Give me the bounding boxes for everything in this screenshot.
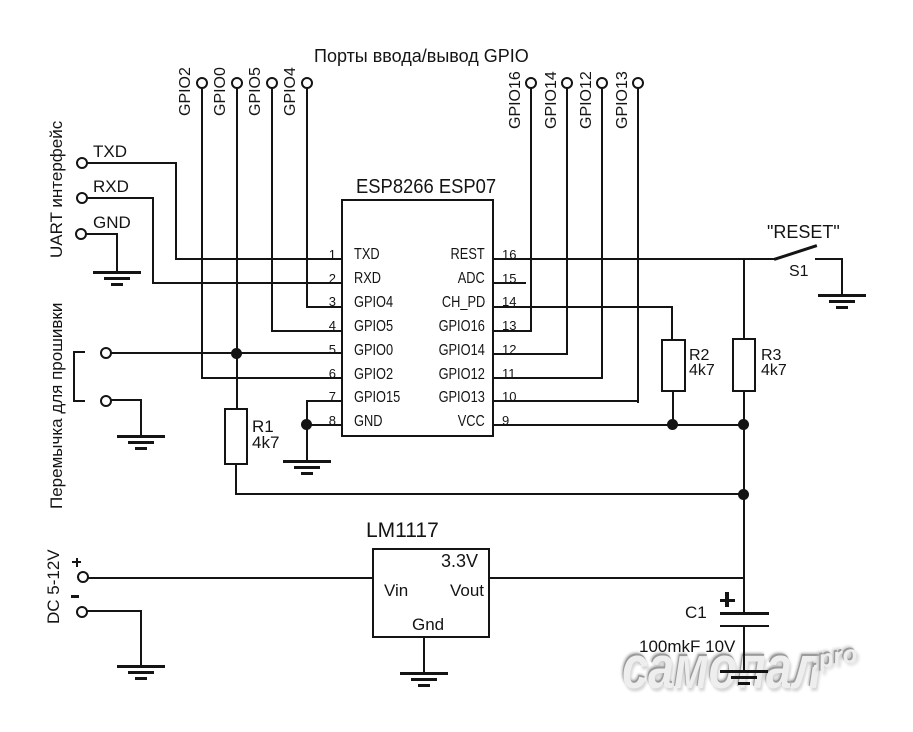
wire pin2: [152, 282, 342, 284]
wire DC minus vertical: [140, 610, 142, 666]
wire GND vertical: [116, 233, 118, 272]
pin number 7: [329, 390, 336, 403]
label RESET: [767, 223, 840, 241]
wire pin7 down: [306, 400, 308, 426]
pin number 2: [329, 272, 336, 285]
terminal GPIO4: [301, 77, 313, 89]
title Порты ввода/вывод GPIO: [314, 47, 529, 65]
pin label GPIO13: [439, 390, 485, 406]
junction R2/VCC: [667, 419, 678, 430]
wire pin11: [493, 377, 603, 379]
pin number 8: [329, 414, 336, 427]
label GPIO0: [213, 67, 229, 116]
label 100mkF 10V: [639, 638, 735, 655]
pin number 5: [329, 343, 336, 356]
terminal GPIO13: [632, 77, 644, 89]
terminal GPIO0: [231, 77, 243, 89]
watermark самопал: [622, 638, 822, 698]
wire RXD vertical: [152, 197, 154, 284]
wire pin8 ground stem: [306, 424, 308, 461]
wire R1 bottom: [235, 465, 237, 495]
wire pin6: [201, 377, 342, 379]
wire R3 top: [743, 258, 745, 338]
pin label GPIO0: [354, 343, 393, 359]
wire pin10: [493, 400, 639, 402]
jumper bracket bottom stub: [73, 400, 85, 402]
label R2 4k7: [689, 348, 715, 378]
regulator LM1117: [372, 548, 490, 638]
pin number 14: [502, 295, 516, 308]
terminal GPIO12: [596, 77, 608, 89]
wire pin4: [271, 330, 342, 332]
wire DC minus horizontal: [87, 610, 142, 612]
label GPIO16: [508, 71, 524, 129]
label LM1117: [366, 520, 439, 541]
jumper bracket vertical: [73, 351, 75, 402]
capacitor C1 plate bottom: [720, 625, 769, 628]
label ESP8266 ESP07: [356, 177, 496, 197]
junction pin7/pin8: [301, 419, 312, 430]
terminal TXD: [76, 157, 88, 169]
label DC 5-12V: [45, 549, 62, 624]
minus sign DC: [71, 595, 79, 598]
label GPIO13: [615, 71, 631, 129]
wire Vout: [490, 577, 745, 579]
label R1 4k7: [252, 419, 279, 451]
label GPIO5: [248, 67, 264, 116]
junction GPIO0/pin5: [231, 348, 242, 359]
pin number 12: [502, 343, 516, 356]
pin number 9: [502, 414, 509, 427]
ground LM1117: [399, 671, 401, 673]
wire R3 bottom stub: [743, 392, 745, 425]
pin label RXD: [354, 271, 381, 287]
plus sign DC: [72, 561, 81, 563]
IC U1 ESP8266 ESP07: [341, 199, 494, 437]
label GND: [93, 214, 131, 231]
wire GPIO5 vertical: [271, 87, 273, 332]
wire R2 bottom stub: [672, 392, 674, 425]
label C1: [685, 604, 707, 621]
ground jumper: [116, 434, 118, 436]
wire GND horizontal: [86, 233, 118, 235]
terminal DC minus: [76, 606, 88, 618]
wire GPIO16 vertical: [530, 87, 532, 332]
terminal GND: [75, 228, 87, 240]
wire pin12: [493, 353, 568, 355]
ground GPIO15/GND: [282, 459, 284, 461]
wire pin7 GPIO15: [306, 400, 342, 402]
pin number 3: [329, 295, 336, 308]
wire GPIO14 vertical: [566, 87, 568, 355]
pin label GPIO5: [354, 319, 393, 335]
label GPIO12: [579, 71, 595, 129]
terminal RXD: [76, 192, 88, 204]
terminal GPIO14: [561, 77, 573, 89]
label S1: [789, 264, 809, 280]
terminal jumper top: [100, 347, 112, 359]
capacitor C1 plate top: [720, 612, 769, 615]
pin label REST: [451, 247, 485, 263]
label 3.3V: [441, 552, 478, 570]
wire GPIO2 vertical: [201, 87, 203, 379]
wire Vin: [88, 577, 372, 579]
watermark .pro: [810, 642, 859, 674]
wire TXD vertical: [175, 162, 177, 260]
pin number 10: [502, 390, 516, 403]
ground DC minus: [116, 664, 118, 666]
wire GPIO4 vertical: [306, 87, 308, 308]
terminal jumper bottom: [100, 395, 112, 407]
junction VCC node bottom: [738, 489, 749, 500]
label R3 4k7: [761, 348, 787, 378]
pin label GND: [354, 414, 382, 430]
pin label VCC: [458, 414, 485, 430]
pin label GPIO14: [439, 343, 485, 359]
pin number 16: [502, 248, 516, 261]
label RXD: [93, 178, 129, 195]
jumper bracket top stub: [73, 351, 85, 353]
pin label GPIO12: [439, 367, 485, 383]
wire GPIO0 vertical: [236, 87, 238, 409]
pin number 13: [502, 319, 516, 332]
label GPIO4: [283, 67, 299, 116]
terminal GPIO5: [266, 77, 278, 89]
pin label GPIO4: [354, 295, 393, 311]
label Vin: [384, 582, 408, 599]
label Перемычка для прошивки: [48, 303, 65, 509]
label UART интерфейс: [48, 121, 65, 258]
wire GPIO12 vertical: [601, 87, 603, 379]
resistor R1: [224, 408, 248, 465]
wire pin8 GND: [306, 424, 342, 426]
wire pin5 jumper: [111, 352, 342, 354]
pin label CH_PD: [442, 295, 485, 311]
label GPIO14: [544, 71, 560, 129]
wire pin14 down to R2: [671, 306, 673, 340]
pin label TXD: [354, 247, 380, 263]
pin label GPIO16: [439, 319, 485, 335]
pin number 15: [502, 272, 516, 285]
label Vout: [450, 582, 484, 599]
wire pin13: [493, 330, 532, 332]
resistor R3: [732, 338, 756, 392]
ground UART: [92, 270, 94, 272]
wire RXD horizontal: [87, 197, 154, 199]
ground C1: [719, 669, 721, 671]
label GPIO2: [178, 67, 194, 116]
wire LM1117 gnd stem: [423, 637, 425, 674]
switch S1 lever: [774, 244, 818, 260]
pin label ADC: [458, 271, 485, 287]
resistor R2: [661, 339, 686, 392]
pin label GPIO15: [354, 390, 400, 406]
label Gnd: [412, 616, 444, 633]
pin label GPIO2: [354, 367, 393, 383]
terminal GPIO2: [196, 77, 208, 89]
junction R3/VCC: [738, 419, 749, 430]
wire S1 right contact: [815, 258, 843, 260]
wire TXD horizontal: [87, 162, 177, 164]
wire jumper bottom horizontal: [111, 399, 142, 401]
ground S1: [817, 293, 819, 295]
label TXD: [93, 143, 127, 160]
terminal DC plus: [77, 571, 89, 583]
wire C1 bottom stem: [743, 627, 745, 671]
pin number 11: [502, 367, 516, 380]
wire VCC vertical: [743, 424, 745, 614]
pin number 6: [329, 367, 336, 380]
wire jumper bottom vertical: [140, 399, 142, 436]
pin number 4: [329, 319, 336, 332]
wire S1 down: [841, 258, 843, 296]
wire GPIO13 vertical: [637, 87, 639, 403]
pin number 1: [329, 248, 336, 261]
wire pin14 CH_PD: [493, 306, 673, 308]
wire pin3: [306, 306, 342, 308]
wire pin1: [175, 258, 342, 260]
plus sign C1: [720, 599, 735, 602]
wire pin16 REST: [493, 258, 776, 260]
wire pin15 ADC stub: [493, 282, 526, 284]
wire R1 to VCC node: [235, 493, 745, 495]
wire pin9 VCC: [493, 424, 745, 426]
terminal GPIO16: [525, 77, 537, 89]
